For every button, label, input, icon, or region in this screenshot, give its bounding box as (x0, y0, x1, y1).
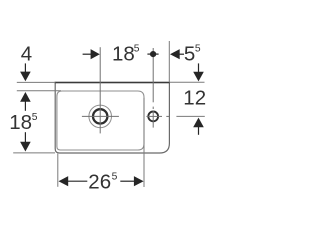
svg-text:12: 12 (183, 86, 206, 109)
dimension 18.5 left: down arrow (24, 132, 26, 142)
svg-text:5: 5 (184, 42, 195, 65)
drain (93, 109, 107, 123)
tap hole center extension line (152, 48, 154, 102)
svg-text:5: 5 (112, 172, 118, 183)
right edge extension line (168, 41, 170, 82)
tap height extension line right (176, 115, 204, 117)
dimension 12: bottom arrow (193, 118, 204, 128)
drain center extension line (99, 47, 101, 133)
inner bowl (57, 91, 144, 150)
tap hole crosshair horizontal (146, 115, 162, 117)
drain outer ring (89, 105, 112, 128)
dimension 26.5: left extension line (57, 154, 59, 187)
svg-text:5: 5 (134, 43, 140, 54)
dimension 18.5 left: up arrow (20, 92, 31, 102)
extension line bowl top left (17, 90, 61, 92)
dimension 12: top arrow (198, 63, 200, 72)
drain crosshair horizontal (82, 115, 119, 117)
dot marker at tap center line (147, 53, 158, 55)
svg-text:5: 5 (32, 112, 38, 123)
dimension 26.5: right arrow (120, 180, 134, 182)
svg-text:18: 18 (9, 111, 32, 134)
dimension 4: down arrow (24, 63, 26, 72)
svg-text:26: 26 (88, 170, 111, 193)
svg-text:5: 5 (195, 43, 201, 54)
dimension 26.5: left arrow (59, 176, 69, 186)
dimension 5.5: arrow (170, 49, 180, 59)
tap hole (148, 112, 158, 122)
washbasin outer outline (55, 83, 169, 154)
dimension 18.5 top: stem and arrow (83, 53, 92, 55)
dimension 26.5: right extension line (143, 98, 145, 187)
back edge (55, 82, 170, 84)
top-right corner extension line (169, 81, 204, 83)
svg-text:4: 4 (21, 42, 32, 65)
extension line front edge left (13, 152, 55, 154)
extension line back edge left (17, 81, 56, 83)
svg-text:18: 18 (112, 42, 135, 65)
